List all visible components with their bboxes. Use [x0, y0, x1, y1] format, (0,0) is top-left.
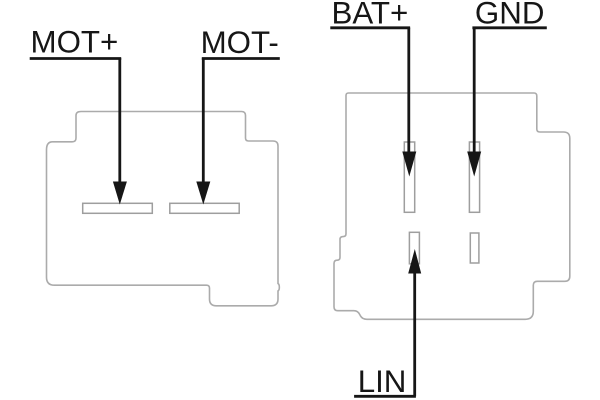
connector J2 pin slot GND — [469, 142, 479, 212]
label BAT+ underline — [330, 26, 410, 29]
svg-text:BAT+: BAT+ — [332, 0, 409, 31]
wire MOT- leader line — [202, 58, 205, 185]
svg-text:MOT-: MOT- — [201, 25, 279, 60]
wire MOT+ leader line — [118, 58, 121, 185]
wire LIN leader line — [413, 271, 416, 396]
label GND underline — [472, 26, 546, 29]
svg-text:LIN: LIN — [358, 364, 407, 399]
label MOT+ underline — [30, 57, 122, 60]
connector J1 pin slot 1 (MOT+) — [83, 203, 153, 213]
wire BAT+ leader line — [407, 28, 410, 156]
label MOT- underline — [202, 57, 280, 60]
arrowhead MOT- — [196, 182, 210, 205]
connector J1 pin slot 2 (MOT-) — [170, 203, 239, 213]
connector J1 body outline (left, 2-pin) — [47, 112, 280, 306]
arrowhead BAT+ — [402, 152, 416, 177]
svg-text:GND: GND — [475, 0, 545, 31]
connector J2 pin slot BAT+ — [404, 142, 414, 212]
wire GND leader line — [473, 28, 476, 156]
label LIN underline — [354, 395, 416, 398]
arrowhead GND — [467, 152, 481, 177]
connector J2 pin slot LIN — [409, 232, 419, 263]
connector J2 pin slot NC — [470, 233, 479, 263]
svg-text:MOT+: MOT+ — [31, 25, 119, 60]
arrowhead LIN — [408, 249, 421, 274]
connector J2 body outline (right, 4-pin) — [334, 93, 570, 319]
arrowhead MOT+ — [113, 182, 127, 205]
